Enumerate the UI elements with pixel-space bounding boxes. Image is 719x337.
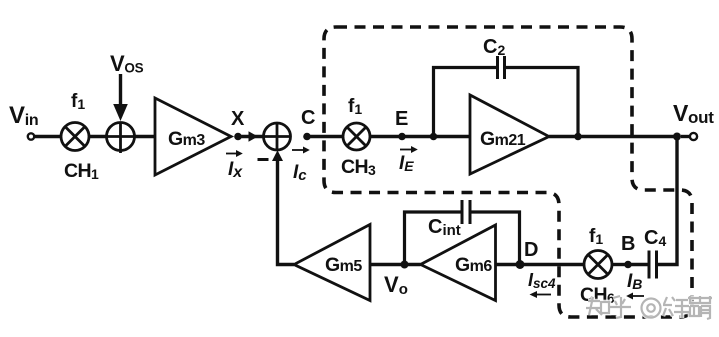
wire Gm21 to Vout	[549, 135, 677, 138]
op-amp Gm3	[155, 98, 231, 175]
wire S1 to Gm3	[135, 135, 156, 138]
wire Cint branch right	[472, 212, 520, 265]
label Ix with arrow	[226, 153, 237, 155]
node E	[398, 133, 406, 141]
capacitor C2	[496, 56, 499, 79]
label Ic with arrow	[292, 149, 304, 151]
dashed boundary outline	[324, 27, 692, 317]
node D	[516, 260, 525, 269]
chopper CH6	[584, 251, 612, 279]
node Vin terminal	[28, 133, 34, 139]
svg-text:Gm5: Gm5	[325, 254, 362, 276]
wire Vout down to C4	[658, 137, 677, 265]
watermark	[586, 296, 712, 319]
wire Cint branch left	[405, 212, 461, 265]
chopper CH1	[61, 123, 89, 151]
node Vout	[673, 133, 681, 141]
svg-text:X: X	[231, 108, 245, 130]
summer S2	[264, 123, 291, 150]
svg-text:Gm6: Gm6	[455, 254, 492, 276]
wire CH3 to Gm21	[370, 135, 470, 138]
node Vout terminal	[690, 133, 697, 140]
svg-text:Gm21: Gm21	[480, 128, 526, 150]
capacitor C4	[655, 251, 658, 279]
wire Vos arrow	[119, 74, 122, 106]
label minus	[258, 158, 269, 161]
svg-text:Gm3: Gm3	[168, 128, 205, 150]
wire Gm6 to Gm5	[370, 263, 421, 266]
node C	[303, 133, 311, 141]
summer S1	[107, 123, 135, 154]
label IE with arrow	[400, 149, 412, 151]
op-amp Gm21	[470, 95, 549, 174]
wire C4 to B	[628, 263, 648, 266]
node B	[624, 261, 632, 269]
op-amp Gm5	[294, 225, 370, 301]
capacitor Cint	[461, 200, 464, 224]
wire X to S2 with arrow	[238, 135, 264, 138]
svg-text:D: D	[524, 239, 538, 261]
node C2 branch junction	[430, 133, 438, 141]
wire CH6 to D	[496, 263, 585, 266]
node Vo	[401, 261, 409, 269]
wire CH1 to summer S1	[89, 135, 107, 138]
chopper CH3	[343, 123, 370, 150]
wire feedback Gm5 to S2	[278, 160, 295, 265]
svg-text:C: C	[301, 107, 315, 129]
svg-text:B: B	[621, 233, 635, 255]
wire C to CH3	[307, 135, 343, 138]
node X	[234, 133, 242, 141]
wire C2 branch left	[434, 68, 497, 137]
wire B to CH6	[612, 263, 628, 266]
svg-text:E: E	[395, 108, 408, 130]
wire C2 branch right	[506, 68, 578, 137]
wire Vin to CH1	[34, 135, 61, 138]
node Gm21 output junction	[574, 133, 582, 141]
op-amp Gm6	[421, 225, 496, 301]
